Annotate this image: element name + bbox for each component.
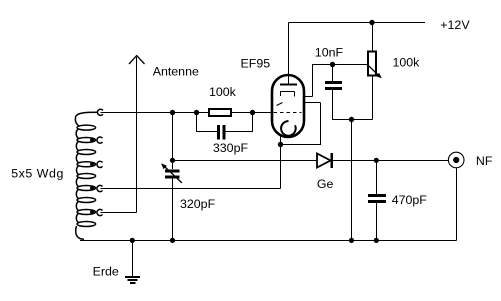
svg-text:100k: 100k bbox=[393, 56, 421, 70]
svg-text:10nF: 10nF bbox=[315, 46, 344, 60]
svg-text:5x5 Wdg: 5x5 Wdg bbox=[11, 166, 64, 180]
svg-text:320pF: 320pF bbox=[180, 197, 216, 211]
svg-text:Antenne: Antenne bbox=[153, 65, 199, 79]
svg-text:+12V: +12V bbox=[440, 18, 470, 32]
svg-text:EF95: EF95 bbox=[241, 57, 271, 71]
svg-text:330pF: 330pF bbox=[213, 141, 249, 155]
svg-text:Erde: Erde bbox=[93, 265, 119, 279]
svg-text:100k: 100k bbox=[209, 85, 237, 99]
svg-text:NF: NF bbox=[476, 154, 493, 168]
svg-text:Ge: Ge bbox=[317, 177, 334, 191]
svg-text:470pF: 470pF bbox=[392, 193, 428, 207]
